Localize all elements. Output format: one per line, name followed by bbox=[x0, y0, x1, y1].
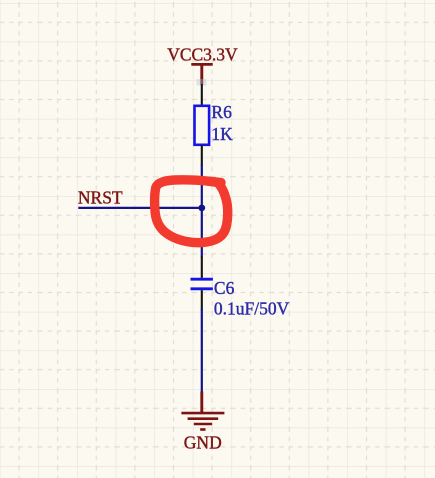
label R6 bbox=[211, 102, 232, 122]
capacitor C6 pin 1 wire bbox=[201, 257, 203, 278]
annotation red circle bbox=[155, 180, 228, 243]
svg-text:VCC3.3V: VCC3.3V bbox=[167, 45, 238, 65]
wire to ground bbox=[201, 309, 203, 393]
svg-text:1K: 1K bbox=[211, 124, 233, 144]
label 0.1uF/50V bbox=[214, 298, 290, 318]
capacitor C6 bbox=[191, 279, 213, 289]
resistor R6 bbox=[195, 106, 210, 145]
power symbol VCC3.3V bbox=[191, 64, 212, 84]
wire vertical net NRST bbox=[201, 165, 203, 258]
svg-text:NRST: NRST bbox=[78, 187, 123, 207]
capacitor C6 pin 2 wire bbox=[201, 290, 203, 310]
snap highlight artifact bbox=[197, 79, 207, 86]
label VCC3.3V bbox=[167, 45, 238, 65]
wire horizontal net NRST bbox=[78, 207, 203, 209]
ground bbox=[181, 392, 224, 430]
svg-text:0.1uF/50V: 0.1uF/50V bbox=[214, 298, 290, 318]
svg-text:GND: GND bbox=[184, 433, 222, 453]
resistor R6 pin 2 wire bbox=[201, 145, 203, 165]
resistor R6 pin 1 wire bbox=[201, 84, 203, 106]
svg-text:R6: R6 bbox=[211, 102, 232, 122]
svg-text:C6: C6 bbox=[214, 278, 235, 298]
node junction bbox=[198, 205, 205, 212]
label 1K bbox=[211, 124, 233, 144]
label NRST bbox=[78, 187, 123, 207]
label C6 bbox=[214, 278, 235, 298]
label GND bbox=[184, 433, 222, 453]
